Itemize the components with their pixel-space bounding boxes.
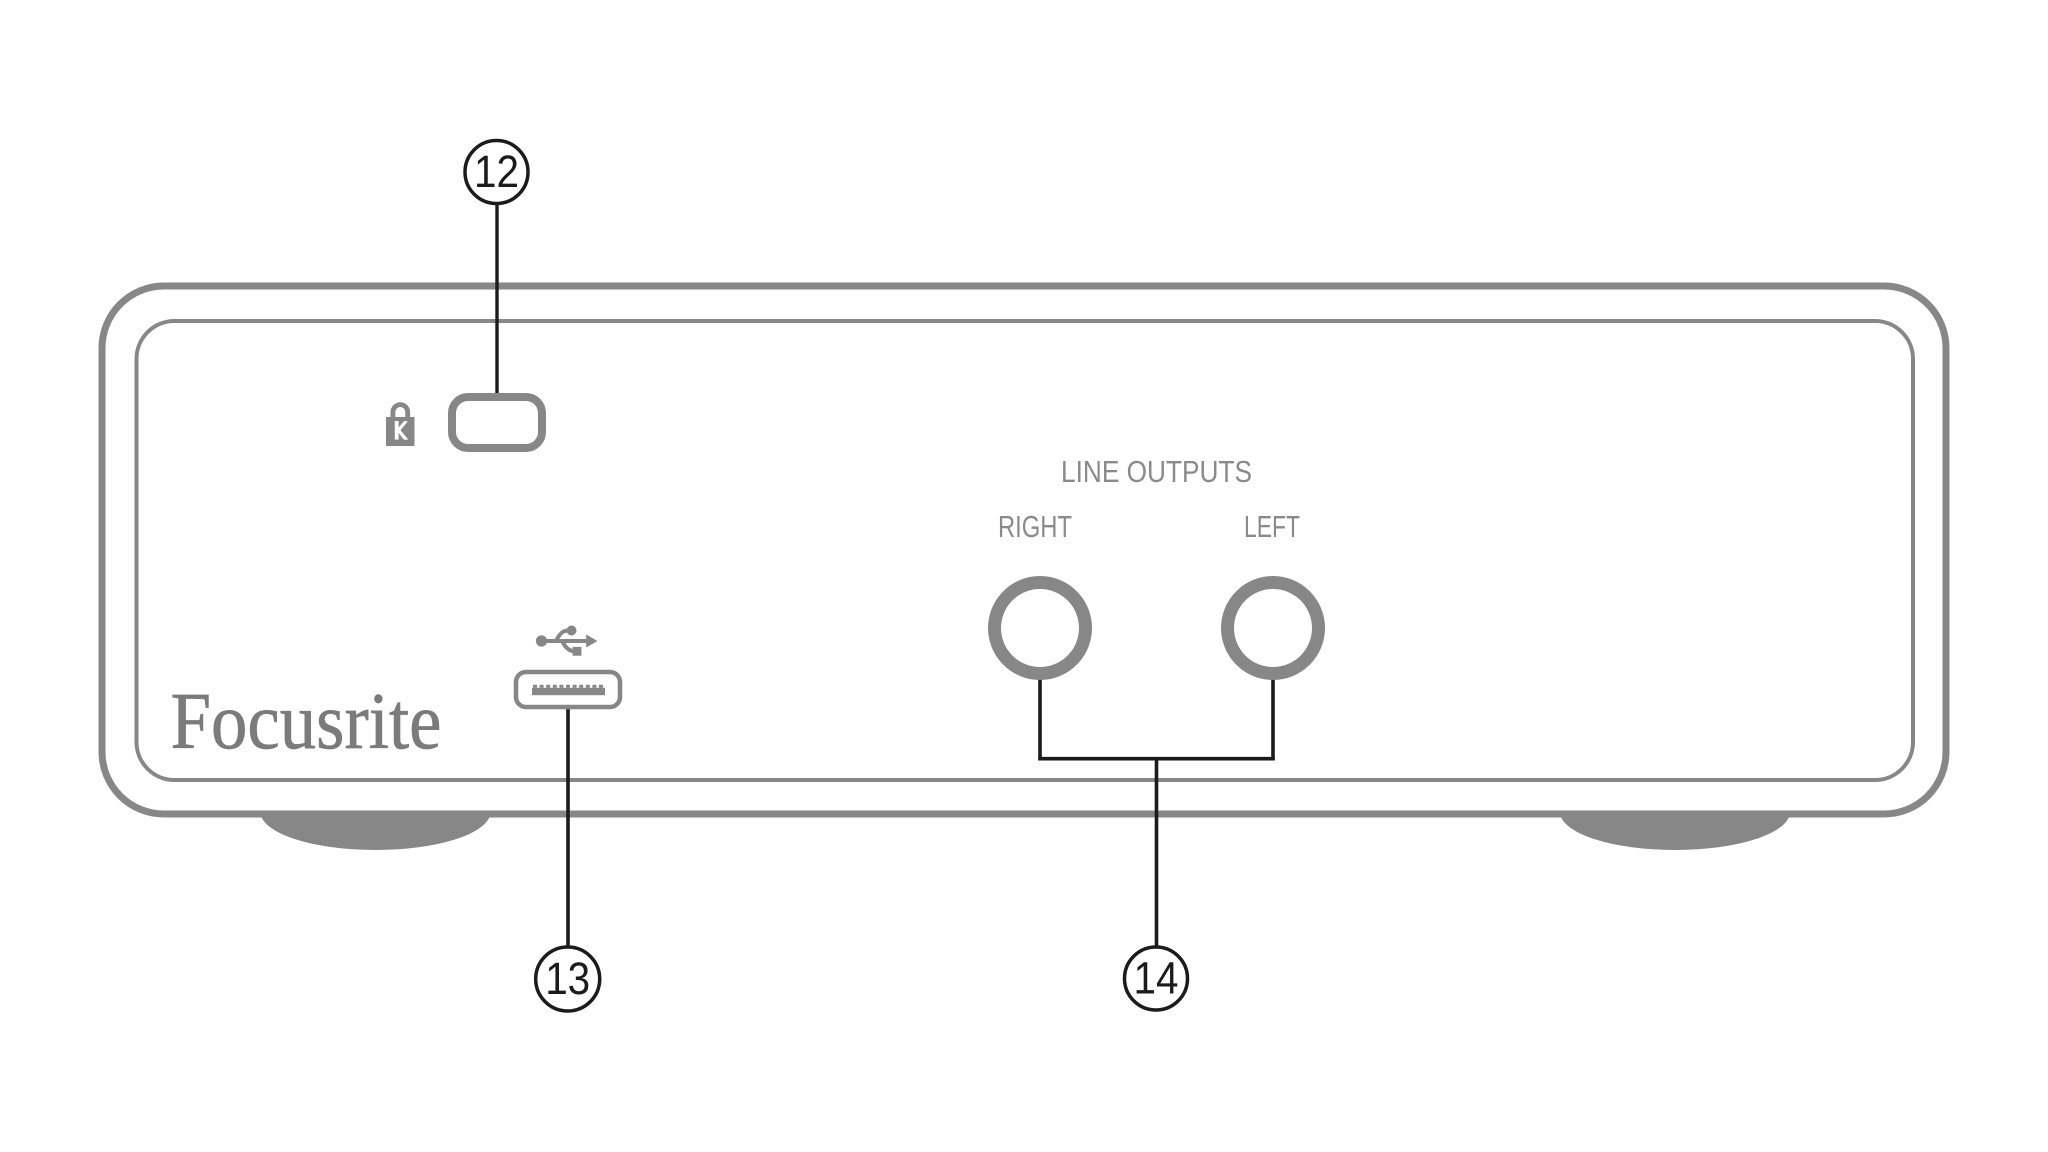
horizontal joining wire <box>1038 757 1275 761</box>
right rubber foot <box>1560 774 1790 850</box>
svg-text:Focusrite: Focusrite <box>171 678 442 766</box>
callout circle 13 <box>536 947 600 1011</box>
Focusrite logo <box>171 678 442 766</box>
wire from USB port to callout 13 <box>566 700 570 948</box>
LEFT line output jack <box>1228 583 1319 674</box>
svg-text:12: 12 <box>474 146 519 197</box>
device inner panel outline <box>137 321 1914 780</box>
wire from RIGHT jack down <box>1038 670 1042 760</box>
LINE OUTPUTS label <box>1061 454 1252 489</box>
svg-text:LEFT: LEFT <box>1244 509 1300 544</box>
LEFT label <box>1244 509 1300 544</box>
RIGHT line output jack <box>995 583 1086 674</box>
wire from joining wire to callout 14 <box>1155 757 1159 948</box>
Kensington security slot <box>452 397 542 448</box>
callout circle 14 <box>1125 947 1188 1010</box>
device outer panel outline <box>102 286 1946 814</box>
wire from callout 12 to security slot <box>495 200 498 396</box>
RIGHT label <box>998 509 1072 544</box>
svg-text:13: 13 <box>545 953 590 1004</box>
Kensington lock icon <box>386 402 415 446</box>
wire from LEFT jack down <box>1271 670 1275 760</box>
svg-text:14: 14 <box>1134 953 1179 1004</box>
svg-text:LINE OUTPUTS: LINE OUTPUTS <box>1061 454 1252 489</box>
svg-text:RIGHT: RIGHT <box>998 509 1072 544</box>
USB type-A port <box>516 672 620 707</box>
left rubber foot <box>261 774 491 850</box>
USB trident icon <box>536 626 598 656</box>
callout circle 12 <box>465 141 528 204</box>
